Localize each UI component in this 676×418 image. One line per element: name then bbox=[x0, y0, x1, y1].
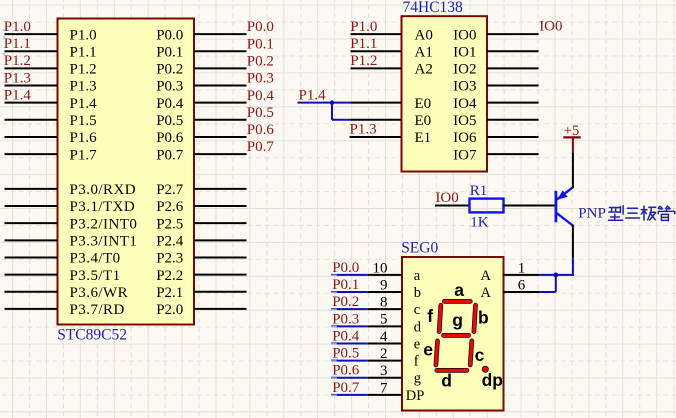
svg-text:IO2: IO2 bbox=[453, 62, 476, 78]
svg-text:d: d bbox=[414, 319, 422, 335]
wire U1 pin P1.3 (left) bbox=[5, 85, 58, 87]
svg-text:P0.4: P0.4 bbox=[156, 96, 184, 112]
svg-text:P1.2: P1.2 bbox=[350, 53, 377, 69]
wire U2 pin A0 stub bbox=[351, 33, 402, 35]
transistor Q1 emitter pin stub bbox=[572, 153, 574, 188]
svg-text:PNP: PNP bbox=[578, 205, 606, 221]
wire U1 pin P2.6 (right) bbox=[194, 205, 247, 207]
svg-text:P0.6: P0.6 bbox=[247, 122, 275, 138]
wire net P0.0 to U3 (blue) bbox=[331, 274, 368, 276]
wire U1 pin P0.6 (right) bbox=[194, 136, 247, 138]
svg-text:dp: dp bbox=[482, 370, 503, 390]
svg-text:P3.4/T0: P3.4/T0 bbox=[70, 251, 121, 267]
svg-text:P0.7: P0.7 bbox=[247, 139, 275, 155]
wire U2 pin IO0 (right stub) bbox=[487, 33, 539, 35]
svg-text:1: 1 bbox=[518, 260, 526, 276]
wire U3 pin 7 stub bbox=[368, 394, 402, 396]
wire U1 pin P3.5/T1 (left) bbox=[5, 274, 58, 276]
svg-text:f: f bbox=[414, 354, 419, 370]
svg-text:P0.0: P0.0 bbox=[156, 27, 183, 43]
junction dot at common anode node bbox=[553, 273, 558, 278]
wire U1 pin P2.4 (right) bbox=[194, 239, 247, 241]
wire U1 pin P2.1 (right) bbox=[194, 291, 247, 293]
svg-text:4: 4 bbox=[380, 329, 388, 345]
svg-text:IO0: IO0 bbox=[435, 190, 458, 206]
svg-text:P0.2: P0.2 bbox=[247, 53, 274, 69]
wire U1 pin P0.5 (right) bbox=[194, 119, 247, 121]
wire R1 to Q1 base bbox=[504, 205, 555, 207]
svg-text:P2.5: P2.5 bbox=[156, 216, 183, 232]
svg-text:P0.7: P0.7 bbox=[332, 380, 360, 396]
svg-text:b: b bbox=[414, 285, 421, 301]
transistor Q1 base bar bbox=[555, 191, 558, 223]
svg-text:P1.4: P1.4 bbox=[299, 87, 327, 103]
wire net P0.7 to U3 (blue) bbox=[331, 394, 368, 396]
svg-text:P1.3: P1.3 bbox=[4, 70, 31, 86]
wire U1 pin P2.3 (right) bbox=[194, 256, 247, 258]
wire U2 pin IO7 (right stub) bbox=[487, 153, 539, 155]
svg-text:P2.1: P2.1 bbox=[156, 285, 183, 301]
wire U2 pin A1 stub bbox=[351, 50, 402, 52]
wire U1 pin P3.6/WR (left) bbox=[5, 291, 58, 293]
wire U1 pin P1.5 (left) bbox=[5, 119, 58, 121]
7-seg display dp dot bbox=[482, 366, 488, 372]
svg-text:P1.2: P1.2 bbox=[4, 53, 31, 69]
svg-text:P0.1: P0.1 bbox=[156, 44, 183, 60]
wire U3 pin 3 stub bbox=[368, 377, 402, 379]
wire U1 pin P1.4 (left) bbox=[5, 102, 58, 104]
wire U2 pin IO1 (right stub) bbox=[487, 50, 539, 52]
svg-text:E0: E0 bbox=[415, 113, 432, 129]
svg-text:e: e bbox=[423, 340, 433, 360]
svg-text:P0.0: P0.0 bbox=[332, 260, 359, 276]
wire U1 pin P0.7 (right) bbox=[194, 153, 247, 155]
wire U1 pin P3.0/RXD (left) bbox=[5, 188, 58, 190]
wire U2 pin IO6 (right stub) bbox=[487, 136, 539, 138]
wire net P0.4 to U3 (blue) bbox=[331, 342, 368, 344]
svg-text:3: 3 bbox=[380, 363, 388, 379]
wire U3 pin 8 stub bbox=[368, 308, 402, 310]
wire U3 pin 5 stub bbox=[368, 325, 402, 327]
svg-text:P1.4: P1.4 bbox=[4, 87, 32, 103]
svg-text:c: c bbox=[414, 302, 420, 318]
wire net P0.1 to U3 (blue) bbox=[331, 291, 368, 293]
svg-text:d: d bbox=[441, 370, 452, 390]
wire Q1 collector down to node bbox=[572, 258, 574, 276]
svg-text:P2.4: P2.4 bbox=[156, 234, 184, 250]
wire U1 pin P3.4/T0 (left) bbox=[5, 256, 58, 258]
wire U3 pin 6 vertical to node bbox=[555, 275, 557, 292]
svg-text:P3.1/TXD: P3.1/TXD bbox=[70, 199, 136, 215]
svg-text:IO0: IO0 bbox=[539, 19, 562, 35]
svg-text:DP: DP bbox=[406, 388, 425, 404]
svg-text:P0.5: P0.5 bbox=[332, 346, 359, 362]
wire P1.4 branch vertical bbox=[331, 103, 333, 120]
svg-text:g: g bbox=[452, 310, 463, 330]
transistor Q1 collector diagonal (bottom) bbox=[557, 213, 573, 225]
wire net P0.2 to U3 (blue) bbox=[331, 308, 368, 310]
wire U1 pin P0.1 (right) bbox=[194, 50, 247, 52]
svg-text:P1.7: P1.7 bbox=[70, 147, 98, 163]
svg-text:P2.2: P2.2 bbox=[156, 268, 183, 284]
wire U2 pin IO4 (right stub) bbox=[487, 102, 539, 104]
wire U2 pin IO2 (right stub) bbox=[487, 67, 539, 69]
wire U1 pin P2.2 (right) bbox=[194, 274, 247, 276]
wire U3 pin 1 stub (right) bbox=[504, 274, 540, 276]
transistor Q1 emitter diagonal (top) bbox=[557, 187, 573, 199]
svg-text:P3.0/RXD: P3.0/RXD bbox=[70, 182, 137, 198]
svg-text:1K: 1K bbox=[470, 214, 489, 230]
svg-text:A0: A0 bbox=[415, 27, 433, 43]
wire U1 pin P1.7 (left) bbox=[5, 153, 58, 155]
svg-text:P1.3: P1.3 bbox=[70, 79, 97, 95]
wire U1 pin P0.2 (right) bbox=[194, 67, 247, 69]
svg-text:E0: E0 bbox=[415, 96, 432, 112]
svg-text:P0.4: P0.4 bbox=[247, 88, 275, 104]
svg-text:8: 8 bbox=[380, 295, 388, 311]
svg-text:IO6: IO6 bbox=[453, 130, 477, 146]
7-seg display segment f bbox=[439, 305, 441, 331]
svg-text:b: b bbox=[478, 308, 489, 328]
transistor Q1 emitter arrow (PNP) bbox=[557, 190, 567, 200]
svg-text:P0.1: P0.1 bbox=[332, 277, 359, 293]
svg-text:P0.7: P0.7 bbox=[156, 147, 184, 163]
svg-text:P3.2/INT0: P3.2/INT0 bbox=[70, 216, 138, 232]
svg-text:5: 5 bbox=[380, 312, 388, 328]
svg-text:P2.3: P2.3 bbox=[156, 251, 183, 267]
power +5 symbol bar bbox=[563, 136, 580, 138]
svg-text:P1.4: P1.4 bbox=[70, 96, 98, 112]
wire U1 pin P0.4 (right) bbox=[194, 102, 247, 104]
svg-text:P0.3: P0.3 bbox=[332, 311, 359, 327]
svg-text:a: a bbox=[414, 268, 421, 284]
7-seg display segment c bbox=[470, 341, 472, 365]
artifact mark at P0.5 wire start bbox=[331, 360, 337, 362]
wire U1 pin P2.5 (right) bbox=[194, 222, 247, 224]
svg-text:P1.1: P1.1 bbox=[70, 44, 97, 60]
svg-text:P0.6: P0.6 bbox=[156, 130, 184, 146]
7-seg display segment e bbox=[436, 341, 438, 365]
svg-text:P1.1: P1.1 bbox=[4, 36, 31, 52]
wire U1 pin P3.1/TXD (left) bbox=[5, 205, 58, 207]
svg-text:P3.3/INT1: P3.3/INT1 bbox=[70, 234, 138, 250]
svg-text:6: 6 bbox=[518, 277, 526, 293]
svg-text:e: e bbox=[414, 336, 420, 352]
artifact mark at P0.6 wire start bbox=[331, 377, 337, 379]
wire U2 pin IO5 (right stub) bbox=[487, 119, 539, 121]
svg-text:P1.2: P1.2 bbox=[70, 62, 97, 78]
svg-text:9: 9 bbox=[380, 277, 388, 293]
7-seg display segment b bbox=[474, 305, 476, 331]
artifact mark at P0.7 wire start bbox=[331, 394, 337, 396]
svg-text:a: a bbox=[454, 280, 464, 300]
svg-text:P1.0: P1.0 bbox=[70, 27, 97, 43]
wire U3 pin 6 stub (right) bbox=[504, 291, 540, 293]
svg-text:A: A bbox=[481, 285, 492, 301]
svg-text:2: 2 bbox=[380, 346, 388, 362]
svg-text:P2.6: P2.6 bbox=[156, 199, 184, 215]
7-seg display segment d bbox=[437, 368, 467, 373]
svg-text:P1.5: P1.5 bbox=[70, 113, 97, 129]
wire P1.4 branch horizontal to second E0 bbox=[332, 119, 351, 121]
wire U1 pin P0.3 (right) bbox=[194, 85, 247, 87]
svg-text:P1.3: P1.3 bbox=[350, 122, 377, 138]
wire U2 pin A2 stub bbox=[351, 67, 402, 69]
wire U2 pin E0 stub (row 2) bbox=[351, 119, 402, 121]
svg-text:+5: +5 bbox=[564, 123, 579, 139]
svg-text:A2: A2 bbox=[415, 62, 433, 78]
IC U2 74HC138 body bbox=[402, 16, 488, 171]
resistor R1 body bbox=[470, 199, 504, 213]
wire U1 pin P3.7/RD (left) bbox=[5, 308, 58, 310]
svg-text:P0.2: P0.2 bbox=[332, 294, 359, 310]
svg-text:P0.1: P0.1 bbox=[247, 36, 274, 52]
wire U1 pin P1.0 (left) bbox=[5, 33, 58, 35]
svg-text:74HC138: 74HC138 bbox=[403, 0, 464, 16]
svg-text:P1.0: P1.0 bbox=[4, 19, 31, 35]
IC U1 STC89C52 body bbox=[58, 19, 195, 325]
svg-text:STC89C52: STC89C52 bbox=[57, 327, 127, 344]
artifact mark at P0.3 wire start bbox=[331, 326, 337, 328]
svg-text:P2.7: P2.7 bbox=[156, 182, 184, 198]
svg-text:f: f bbox=[427, 306, 433, 326]
power +5 stem bbox=[572, 137, 574, 152]
svg-text:P1.0: P1.0 bbox=[350, 19, 377, 35]
artifact mark at P0.4 wire start bbox=[331, 343, 337, 345]
svg-text:P0.5: P0.5 bbox=[247, 105, 274, 121]
junction dot P1.4 branch bbox=[330, 100, 335, 105]
artifact mark at P0.1 wire start bbox=[331, 292, 337, 294]
svg-text:P3.5/T1: P3.5/T1 bbox=[70, 268, 121, 284]
svg-text:A1: A1 bbox=[415, 44, 433, 60]
svg-text:P3.6/WR: P3.6/WR bbox=[70, 285, 129, 301]
wire U1 pin P2.0 (right) bbox=[194, 308, 247, 310]
svg-text:R1: R1 bbox=[470, 183, 488, 199]
svg-text:c: c bbox=[475, 345, 485, 365]
wire U1 pin P1.1 (left) bbox=[5, 50, 58, 52]
transistor Q1 collector pin stub bbox=[572, 225, 574, 258]
7-seg display segment a bbox=[444, 299, 470, 304]
wire P1.4 horizontal to E0 bbox=[298, 102, 351, 104]
svg-text:P0.3: P0.3 bbox=[156, 79, 183, 95]
wire U2 pin E0 stub (row 1) bbox=[351, 102, 402, 104]
wire U3 pin 1 to Q1 collector bbox=[540, 274, 574, 276]
svg-text:P0.5: P0.5 bbox=[156, 113, 183, 129]
wire U1 pin P0.0 (right) bbox=[194, 33, 247, 35]
wire U2 pin IO3 (right stub) bbox=[487, 85, 539, 87]
wire U3 pin 9 stub bbox=[368, 291, 402, 293]
svg-text:g: g bbox=[414, 371, 421, 387]
wire U1 pin P1.2 (left) bbox=[5, 67, 58, 69]
svg-text:P3.7/RD: P3.7/RD bbox=[70, 302, 125, 318]
svg-text:10: 10 bbox=[373, 260, 388, 276]
svg-text:IO1: IO1 bbox=[453, 44, 476, 60]
wire U3 pin 10 stub bbox=[368, 274, 402, 276]
wire U1 pin P3.2/INT0 (left) bbox=[5, 222, 58, 224]
wire U1 pin P3.3/INT1 (left) bbox=[5, 239, 58, 241]
artifact marks bbox=[3, 29, 5, 55]
wire U3 pin 6 (blue) bbox=[540, 291, 556, 293]
svg-text:SEG0: SEG0 bbox=[401, 240, 438, 257]
wire net P0.3 to U3 (blue) bbox=[331, 325, 368, 327]
artifact mark at P0.2 wire start bbox=[331, 309, 337, 311]
svg-text:P0.3: P0.3 bbox=[247, 71, 274, 87]
svg-text:IO5: IO5 bbox=[453, 113, 476, 129]
wire net P0.6 to U3 (blue) bbox=[331, 377, 368, 379]
wire net P0.5 to U3 (blue) bbox=[331, 360, 368, 362]
7-seg display segment g bbox=[444, 333, 469, 338]
wire U1 pin P1.6 (left) bbox=[5, 136, 58, 138]
wire IO0 to R1 bbox=[435, 205, 470, 207]
svg-text:P1.6: P1.6 bbox=[70, 130, 98, 146]
svg-text:IO0: IO0 bbox=[453, 27, 476, 43]
wire U1 pin P2.7 (right) bbox=[194, 188, 247, 190]
svg-text:IO4: IO4 bbox=[453, 96, 477, 112]
svg-text:P0.4: P0.4 bbox=[332, 328, 360, 344]
svg-text:IO3: IO3 bbox=[453, 79, 476, 95]
svg-text:E1: E1 bbox=[415, 130, 432, 146]
svg-text:IO7: IO7 bbox=[453, 147, 477, 163]
svg-text:P0.2: P0.2 bbox=[156, 62, 183, 78]
svg-text:P0.0: P0.0 bbox=[247, 19, 274, 35]
IC U3 SEG0 body bbox=[402, 257, 504, 411]
svg-text:P1.1: P1.1 bbox=[350, 36, 377, 52]
wire U3 pin 4 stub bbox=[368, 342, 402, 344]
artifact mark at P0.0 wire start bbox=[331, 275, 337, 277]
wire U2 pin E1 stub bbox=[350, 136, 402, 138]
svg-text:7: 7 bbox=[380, 380, 388, 396]
svg-text:P0.6: P0.6 bbox=[332, 363, 360, 379]
svg-text:P2.0: P2.0 bbox=[156, 302, 183, 318]
wire U3 pin 2 stub bbox=[368, 360, 402, 362]
svg-text:A: A bbox=[481, 268, 492, 284]
